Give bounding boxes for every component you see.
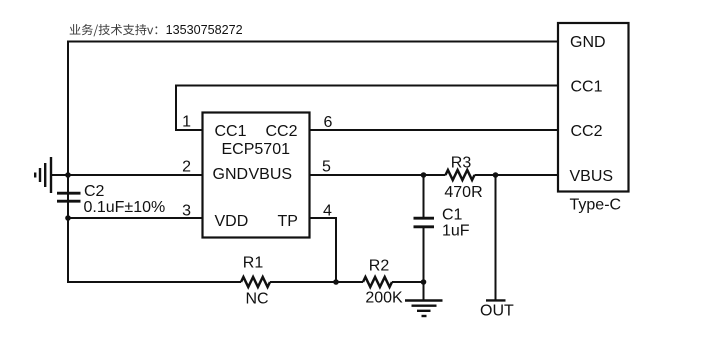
resistor R3 xyxy=(446,170,475,180)
svg-text:C2: C2 xyxy=(84,183,105,200)
label U1 pin numbers xyxy=(182,114,332,220)
label J1 pin names xyxy=(570,34,614,185)
wire: pin 2 GND row (ground stub through C2 node to U1 pin 2) xyxy=(52,174,203,176)
svg-text:CC1: CC1 xyxy=(571,78,603,95)
label R1 value xyxy=(243,255,269,308)
label R3 value xyxy=(444,154,482,201)
svg-text:CC2: CC2 xyxy=(266,123,298,140)
svg-text:NC: NC xyxy=(245,291,268,308)
wire: GND net top horizontal xyxy=(69,41,558,43)
label C1 value xyxy=(442,206,470,239)
svg-text:CC1: CC1 xyxy=(215,123,247,140)
connector J1 Type-C box xyxy=(558,23,629,192)
label R2 value xyxy=(365,258,403,307)
svg-text:2: 2 xyxy=(182,159,191,176)
svg-text:VDD: VDD xyxy=(215,213,249,230)
svg-text:CC2: CC2 xyxy=(571,123,603,140)
op-amp U1 ECP5701 box xyxy=(203,113,310,238)
svg-text:GND: GND xyxy=(213,166,249,183)
svg-text:200K: 200K xyxy=(365,290,403,307)
wire: VDD row (junction to U1 pin 3) xyxy=(68,217,203,219)
svg-text:3: 3 xyxy=(182,202,191,219)
svg-text:5: 5 xyxy=(322,159,331,176)
annotation: header contact text 业务/技术支持v：13530758272 xyxy=(70,23,243,37)
wire: OUT drop xyxy=(495,175,497,300)
svg-text:GND: GND xyxy=(570,34,606,51)
terminal OUT tick xyxy=(486,299,506,301)
label C2 value xyxy=(84,183,166,216)
svg-text:C1: C1 xyxy=(442,206,463,223)
node: junction C1 top xyxy=(421,172,427,178)
ground symbol (left, sideways) xyxy=(35,157,51,193)
node: junction C1 bottom / ground xyxy=(421,279,427,285)
svg-text:ECP5701: ECP5701 xyxy=(222,141,291,158)
wire: CC2 net (U1 pin 6 to Type-C CC2) xyxy=(309,129,558,131)
wire: ground stub below junction xyxy=(423,282,425,300)
svg-text:TP: TP xyxy=(278,213,298,230)
svg-text:6: 6 xyxy=(324,114,333,131)
node: junction C2 bottom / VDD row xyxy=(65,215,71,221)
svg-text:1uF: 1uF xyxy=(442,223,470,240)
wire: GND net left vertical xyxy=(67,41,69,284)
wire: VBUS row left (U1 pin 5 to R3) xyxy=(309,174,446,176)
ground symbol (bottom) xyxy=(405,301,443,317)
svg-text:R2: R2 xyxy=(369,258,390,275)
wire: bottom net right (R2 to C1 bottom junction) xyxy=(392,281,424,283)
svg-text:R3: R3 xyxy=(451,154,472,171)
resistor R2 xyxy=(363,277,392,287)
wire: bottom net middle (R1 to R2) xyxy=(270,281,363,283)
svg-text:VBUS: VBUS xyxy=(249,166,293,183)
capacitor C2 xyxy=(57,175,81,218)
svg-text:OUT: OUT xyxy=(480,302,514,319)
svg-text:0.1uF±10%: 0.1uF±10% xyxy=(84,199,166,216)
wire: CC1 net (Type-C CC1 to U1 pin 1) xyxy=(176,86,558,131)
node: junction pin4 / bottom net xyxy=(333,279,339,285)
label U1 pin names xyxy=(213,123,298,230)
node: junction OUT tap xyxy=(493,172,499,178)
wire: TP pin 4 drop xyxy=(309,218,336,283)
svg-text:Type-C: Type-C xyxy=(570,197,622,214)
svg-text:470R: 470R xyxy=(444,184,482,201)
svg-text:VBUS: VBUS xyxy=(570,168,614,185)
resistor R1 xyxy=(241,277,270,287)
svg-text:1: 1 xyxy=(182,114,191,131)
svg-text:13530758272: 13530758272 xyxy=(166,23,243,37)
capacitor C1 xyxy=(414,175,435,282)
wire: bottom net left (left vertical to R1) xyxy=(68,281,241,283)
svg-text:R1: R1 xyxy=(243,255,264,272)
node: junction C2 top / GND net xyxy=(65,172,71,178)
wire: VBUS row right (R3 to Type-C VBUS) xyxy=(475,174,559,176)
